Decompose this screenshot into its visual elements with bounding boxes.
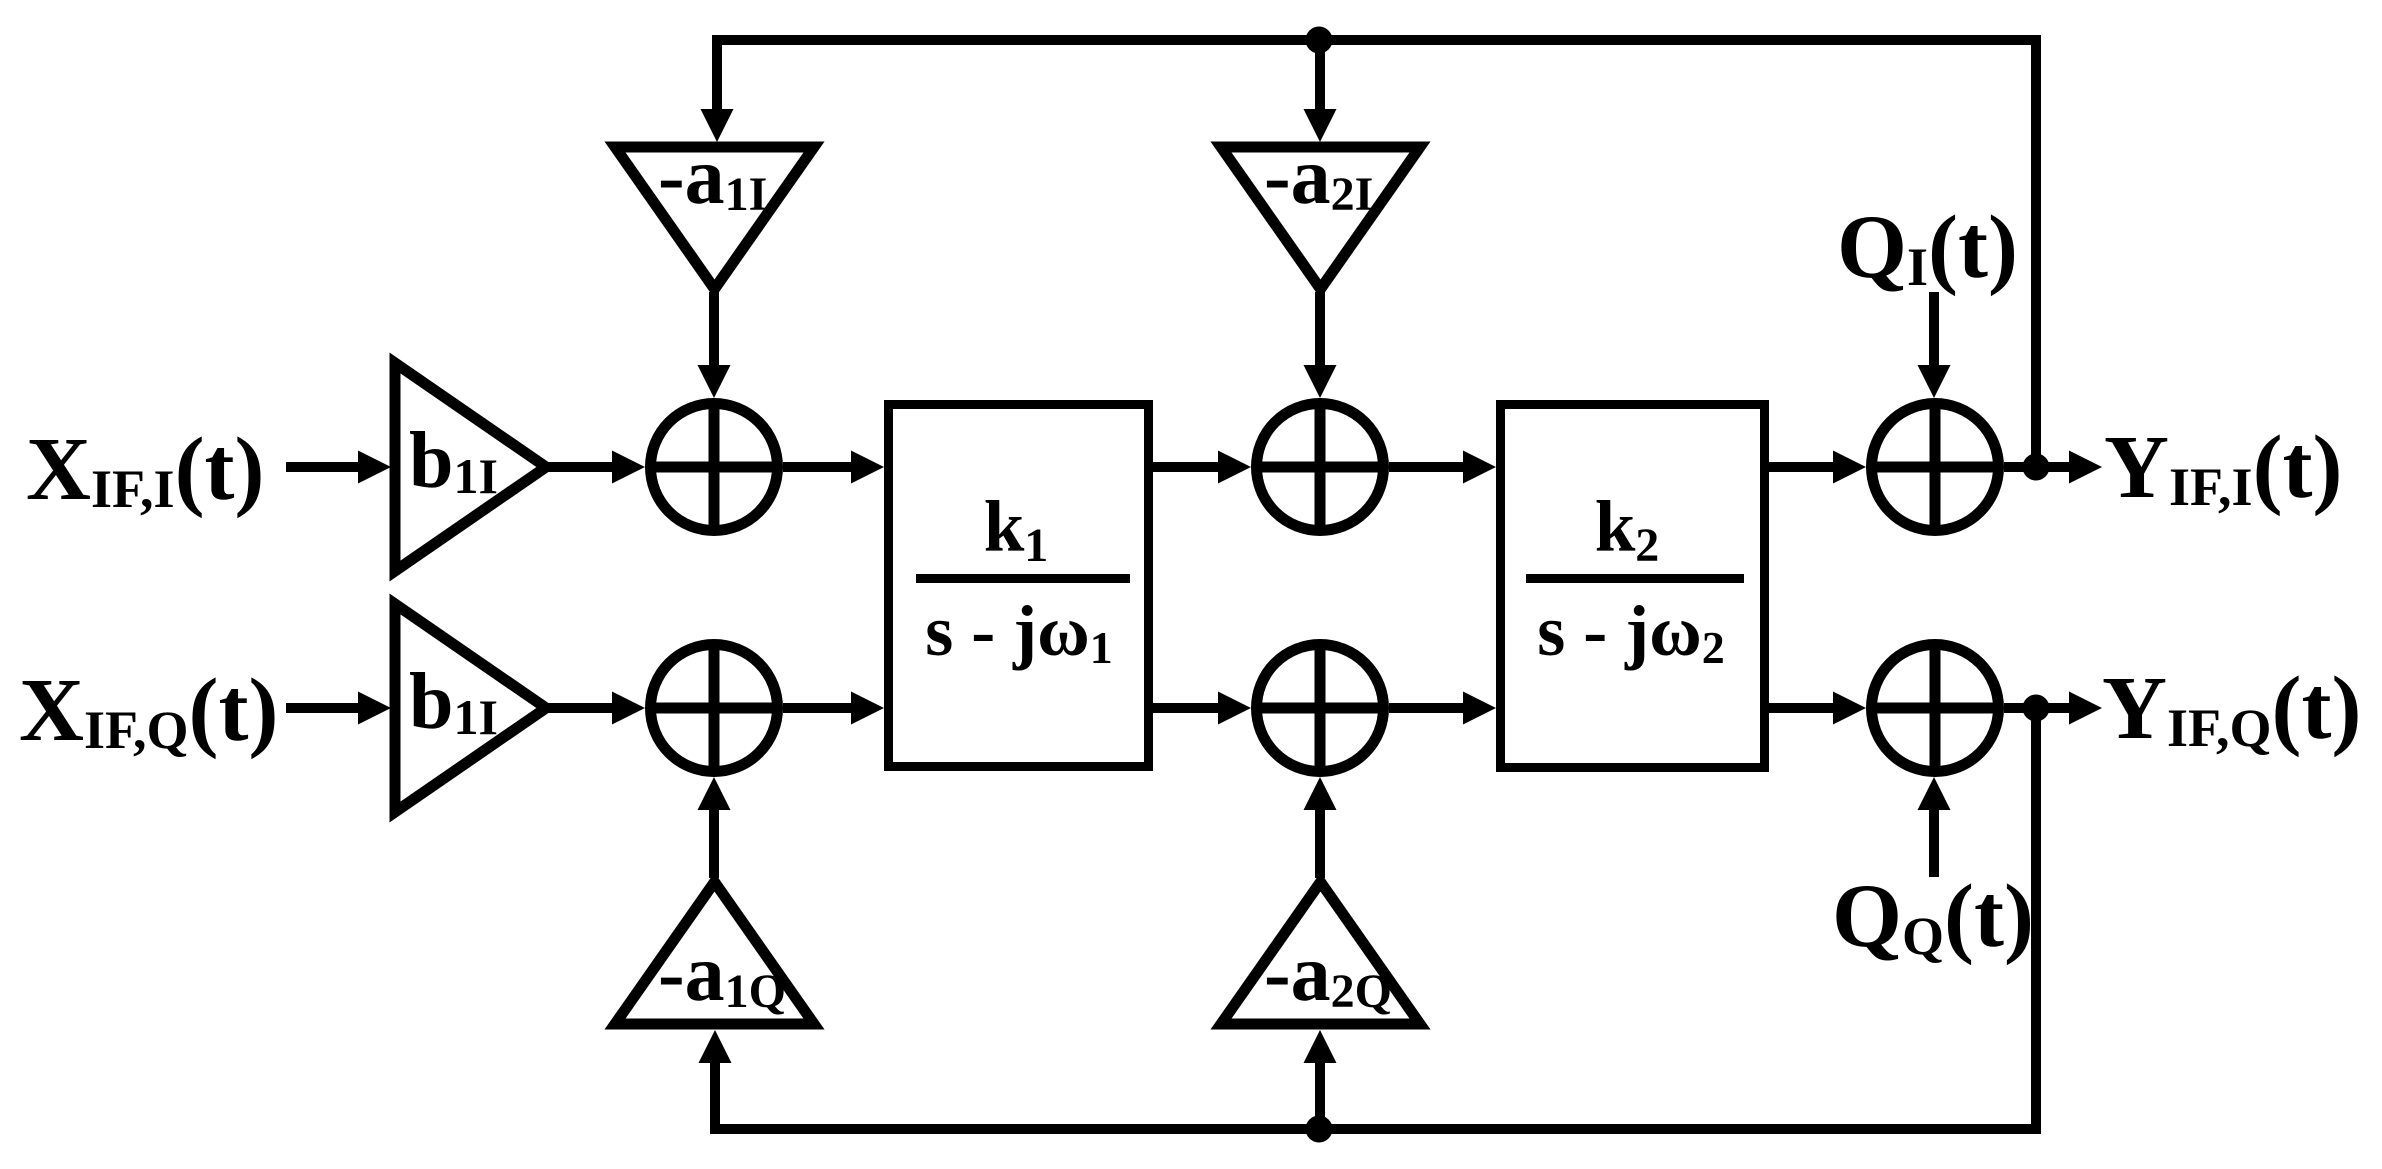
summer S4 (651, 645, 778, 772)
wire box1 to sum5 row2 (1153, 703, 1220, 713)
summer S5 (1257, 645, 1384, 772)
arrowhead into sum5 row2 (1218, 692, 1251, 725)
block H2 box (1501, 405, 1765, 768)
arrowhead into box2 row1 (1463, 451, 1496, 484)
arrowhead into sum5 bottom (1304, 777, 1337, 810)
summer S2 (1257, 404, 1384, 531)
arrowhead into sum1 row1 (612, 451, 645, 484)
wire a2I apex to sum2 (1315, 292, 1325, 370)
wire sum4 to box1 row2 (783, 703, 853, 713)
svg-text:s - jω2: s - jω2 (1537, 591, 1725, 673)
gain triangle b1I row1 (395, 363, 546, 571)
arrowhead into box2 row2 (1463, 692, 1496, 725)
svg-text:QI(t): QI(t) (1837, 198, 2018, 297)
wire input row2 (286, 703, 360, 713)
junction dot output row2 (2023, 695, 2050, 722)
gain triangle b1I row2 (395, 604, 546, 812)
arrowhead output row1 (2069, 451, 2102, 484)
wire box1 to sum2 row1 (1153, 462, 1220, 472)
gain triangle -a2Q (1221, 882, 1420, 1024)
wire dot to a2Q (1315, 1060, 1325, 1129)
arrowhead input row2 (358, 692, 391, 725)
gain triangle -a1I (615, 147, 814, 289)
wire a1I apex to sum1 (709, 292, 719, 370)
arrowhead input row1 (358, 451, 391, 484)
wire box2 to sum6 row2 (1769, 703, 1835, 713)
arrowhead into box1 row1 (851, 451, 884, 484)
wire b1 to sum4 row2 (546, 703, 614, 713)
wire sum6 to output row2 (2004, 703, 2071, 713)
arrowhead into sum4 row2 (612, 692, 645, 725)
arrowhead into sum6 row2 (1833, 692, 1866, 725)
fraction bar H2 (1526, 574, 1744, 583)
wire QQ to sum6 (1929, 804, 1939, 877)
wire a1Q apex to sum4 (709, 806, 719, 878)
arrowhead QQ into sum6 bottom (1918, 777, 1951, 810)
wire dot to a2I (1315, 40, 1325, 112)
wire sum2 to box2 row1 (1389, 462, 1465, 472)
summer S1 (651, 404, 778, 531)
arrowhead into sum2 top (1304, 365, 1337, 398)
wire QI to sum3 (1929, 292, 1939, 372)
wire sum1 to box1 row1 (783, 462, 853, 472)
junction dot output row1 (2023, 454, 2050, 481)
gain triangle -a1Q (615, 882, 814, 1024)
wire bottom to a1Q (710, 1060, 720, 1129)
junction dot top wire (1306, 27, 1333, 54)
wire top feedback (717, 40, 2036, 467)
wire b1 to sum1 row1 (546, 462, 614, 472)
arrowhead into sum4 bottom (698, 777, 731, 810)
wire box2 to sum3 row1 (1769, 462, 1835, 472)
arrowhead into sum2 row1 (1218, 451, 1251, 484)
junction dot bottom wire (1306, 1116, 1333, 1143)
gain triangle -a2I (1221, 147, 1420, 289)
wire a2Q apex to sum5 (1315, 806, 1325, 878)
arrowhead output row2 (2069, 692, 2102, 725)
arrowhead into sum3 row1 (1833, 451, 1866, 484)
wire input row1 (286, 462, 360, 472)
svg-text:s - jω1: s - jω1 (925, 591, 1113, 673)
arrowhead QI into sum3 top (1918, 365, 1951, 398)
arrowhead into a1Q (699, 1030, 732, 1063)
arrowhead into a2I (1304, 109, 1337, 142)
block H1 box (889, 405, 1149, 767)
summer S3 (1872, 404, 1999, 531)
arrowhead into a1I (701, 109, 734, 142)
arrowhead into a2Q (1304, 1030, 1337, 1063)
wire bottom feedback (715, 708, 2036, 1129)
fraction bar H1 (916, 574, 1130, 583)
arrowhead into box1 row2 (851, 692, 884, 725)
arrowhead into sum1 top (698, 365, 731, 398)
summer S6 (1872, 645, 1999, 772)
wire sum5 to box2 row2 (1389, 703, 1465, 713)
wire sum3 to output row1 (2004, 462, 2071, 472)
